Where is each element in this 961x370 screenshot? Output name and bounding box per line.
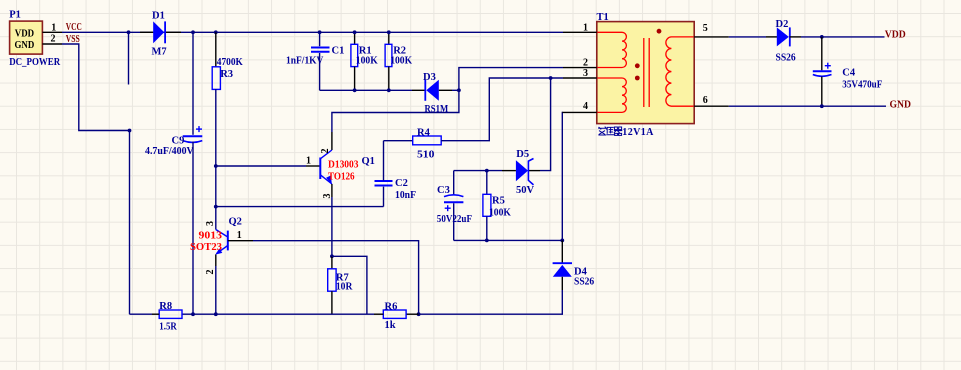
node R6 right junction [417,312,421,316]
svg-text:100K: 100K [390,55,413,66]
svg-text:2: 2 [320,149,331,154]
svg-text:1.5R: 1.5R [159,321,177,332]
transformer polarity dot top [657,29,662,34]
node Q2 emitter bottom junction [214,312,218,316]
svg-text:1nF/1KV: 1nF/1KV [286,55,324,66]
svg-text:T1: T1 [597,12,609,23]
wire D3 node up to transformer pin 2 [459,68,563,91]
wire R3 bottom column to Q2 [215,89,217,230]
node R2 bottom junction [387,88,391,92]
svg-text:2: 2 [51,33,56,44]
wire aux bottom rail [454,239,563,241]
svg-text:GND: GND [890,100,912,111]
svg-text:RS1M: RS1M [425,104,449,115]
svg-text:GND: GND [15,40,35,51]
svg-text:1: 1 [583,22,588,33]
diode D4 SS26 [553,240,595,290]
wire Q2 collector to C2 bottom rail [216,206,384,208]
svg-text:3: 3 [205,221,216,226]
node D5 C3 R5 junction [485,169,489,173]
connector P1 (DC_POWER) [9,9,62,67]
svg-text:C1: C1 [332,45,345,56]
wire D3 node down to Q1 collector [332,90,459,132]
node C4 bottom junction [820,104,824,108]
node Q1 base junction [214,164,218,168]
svg-text:Q2: Q2 [229,217,242,228]
wire D2 to VDD [801,36,885,38]
svg-text:VCC: VCC [66,22,82,33]
node pin4 D4 junction [560,239,564,243]
svg-text:TO126: TO126 [328,172,355,183]
svg-text:SS26: SS26 [776,52,796,63]
transformer T1 primary winding pins 1-2 [598,32,627,67]
wire C9 bottom column [192,142,194,315]
svg-text:4: 4 [583,101,588,112]
transistor Q2 9013 [190,217,253,275]
svg-text:C9: C9 [172,135,185,146]
transistor Q1 D13003 [306,132,375,199]
svg-text:100K: 100K [356,55,379,66]
wire Q1 base [216,165,306,167]
wire R4 right to transformer pin 3 [441,78,563,141]
svg-text:DC_POWER: DC_POWER [9,57,60,68]
transformer T1 body [597,12,695,124]
capacitor C3 50V22uF [437,171,472,241]
svg-text:12V1A: 12V1A [622,127,654,138]
node C9 top junction [191,30,195,34]
transformer T1 pins left [562,22,597,112]
diode D2 SS26 [766,19,801,64]
node Q2 collector junction [214,205,218,209]
resistor R5 100K [483,171,512,241]
resistor R8 1.5R [130,301,183,333]
wire pin6 to GND [729,105,886,107]
wire pin3 junction down to D5 [540,78,551,171]
wire Q2 emitter column [215,266,217,314]
wire top rail VCC to transformer pin 1 [62,31,563,33]
resistor R7 10R [328,256,353,314]
svg-text:D2: D2 [776,19,789,30]
node C4 top junction [820,35,824,39]
svg-text:SOT23: SOT23 [190,242,222,253]
svg-text:R5: R5 [492,196,505,207]
wire VSS run [62,44,130,314]
svg-text:4.7uF/400V: 4.7uF/400V [145,146,194,157]
node VSS corner junction [128,129,132,133]
capacitor C1 1nF/1KV [286,32,344,90]
capacitor C9 4.7uF/400V [145,126,202,157]
diode D3 RS1M [412,72,459,115]
node D3 output junction [457,88,461,92]
svg-text:C3: C3 [437,185,450,196]
svg-text:M7: M7 [152,46,167,57]
resistor R2 100K [385,32,413,90]
node R2 top junction [387,30,391,34]
wire snubber bottom rail [320,89,412,91]
node pin3 junction [549,76,553,80]
node C9 bottom junction [191,312,195,316]
svg-text:50V: 50V [516,185,535,196]
transformer T1 secondary winding pins 5-6 [666,37,694,106]
svg-text:Q1: Q1 [362,156,375,167]
capacitor C2 10nF [375,141,417,207]
wire pin5 to D2 [729,36,766,38]
wire stub below VCC rail [128,32,130,84]
svg-text:SS26: SS26 [574,276,594,287]
svg-text:C4: C4 [842,67,856,78]
svg-text:C2: C2 [395,178,408,189]
svg-text:10nF: 10nF [395,190,416,201]
svg-text:VDD: VDD [885,29,906,40]
capacitor C4 35V470uF [813,37,883,106]
svg-text:9013: 9013 [199,231,223,242]
svg-text:VDD: VDD [15,28,35,39]
svg-text:10R: 10R [336,282,353,293]
svg-text:R8: R8 [159,301,172,312]
resistor R6 1k [374,301,419,331]
svg-text:D5: D5 [516,149,529,160]
svg-text:5: 5 [703,23,708,34]
wire bottom rail left span [182,313,374,315]
svg-text:50V22uF: 50V22uF [437,214,472,225]
transformer T1 aux winding pins 3-4 [598,78,627,112]
svg-text:1k: 1k [385,320,396,331]
transformer polarity dot pin3 side [635,76,640,81]
svg-text:6: 6 [703,95,708,106]
diode D1 M7 [140,11,181,58]
wire C2 top to R4 [384,140,413,142]
transformer T1 pins right [694,23,729,106]
diode D5 zener 50V [454,149,540,196]
transformer polarity dot pin2 side [635,63,640,68]
svg-text:D3: D3 [423,72,436,83]
wire Q2 base run to R6 [253,241,419,315]
resistor R3 4700K [212,57,243,90]
node R5 bottom junction [485,239,489,243]
svg-text:3: 3 [583,68,588,79]
svg-text:R4: R4 [417,128,431,139]
wire transformer pin4 column [561,112,564,240]
svg-text:4700K: 4700K [217,57,244,68]
svg-text:R6: R6 [385,301,398,312]
svg-text:35V470uF: 35V470uF [842,79,882,90]
svg-text:1: 1 [51,22,56,33]
svg-text:100K: 100K [489,208,512,219]
node R3 top junction [214,30,218,34]
svg-text:1: 1 [306,156,311,167]
wire D4 bottom to ground rail [419,290,562,314]
transformer T1 value label CJK 12V1A [598,127,654,138]
node R1 top junction [353,30,357,34]
wire emitter node to R6 right leg [332,256,367,314]
transformer T1 core [644,38,649,107]
svg-text:P1: P1 [9,9,21,20]
wire R3 top stub [215,32,217,67]
svg-text:R3: R3 [220,69,233,80]
node C1 top junction [318,30,322,34]
resistor R1 100K [351,32,379,90]
node R1 bottom junction [353,88,357,92]
svg-text:1: 1 [237,230,242,241]
svg-text:2: 2 [205,270,216,275]
wire Q1 emitter column [331,197,333,256]
svg-text:D1: D1 [152,11,165,22]
svg-text:2: 2 [583,57,588,68]
svg-text:D13003: D13003 [328,160,359,171]
svg-text:510: 510 [417,150,434,161]
node VCC rail stub junction [127,30,131,34]
resistor R4 510 [413,128,442,161]
wire C9 top column [192,32,194,135]
node Q1 emitter R7 junction [330,254,334,258]
